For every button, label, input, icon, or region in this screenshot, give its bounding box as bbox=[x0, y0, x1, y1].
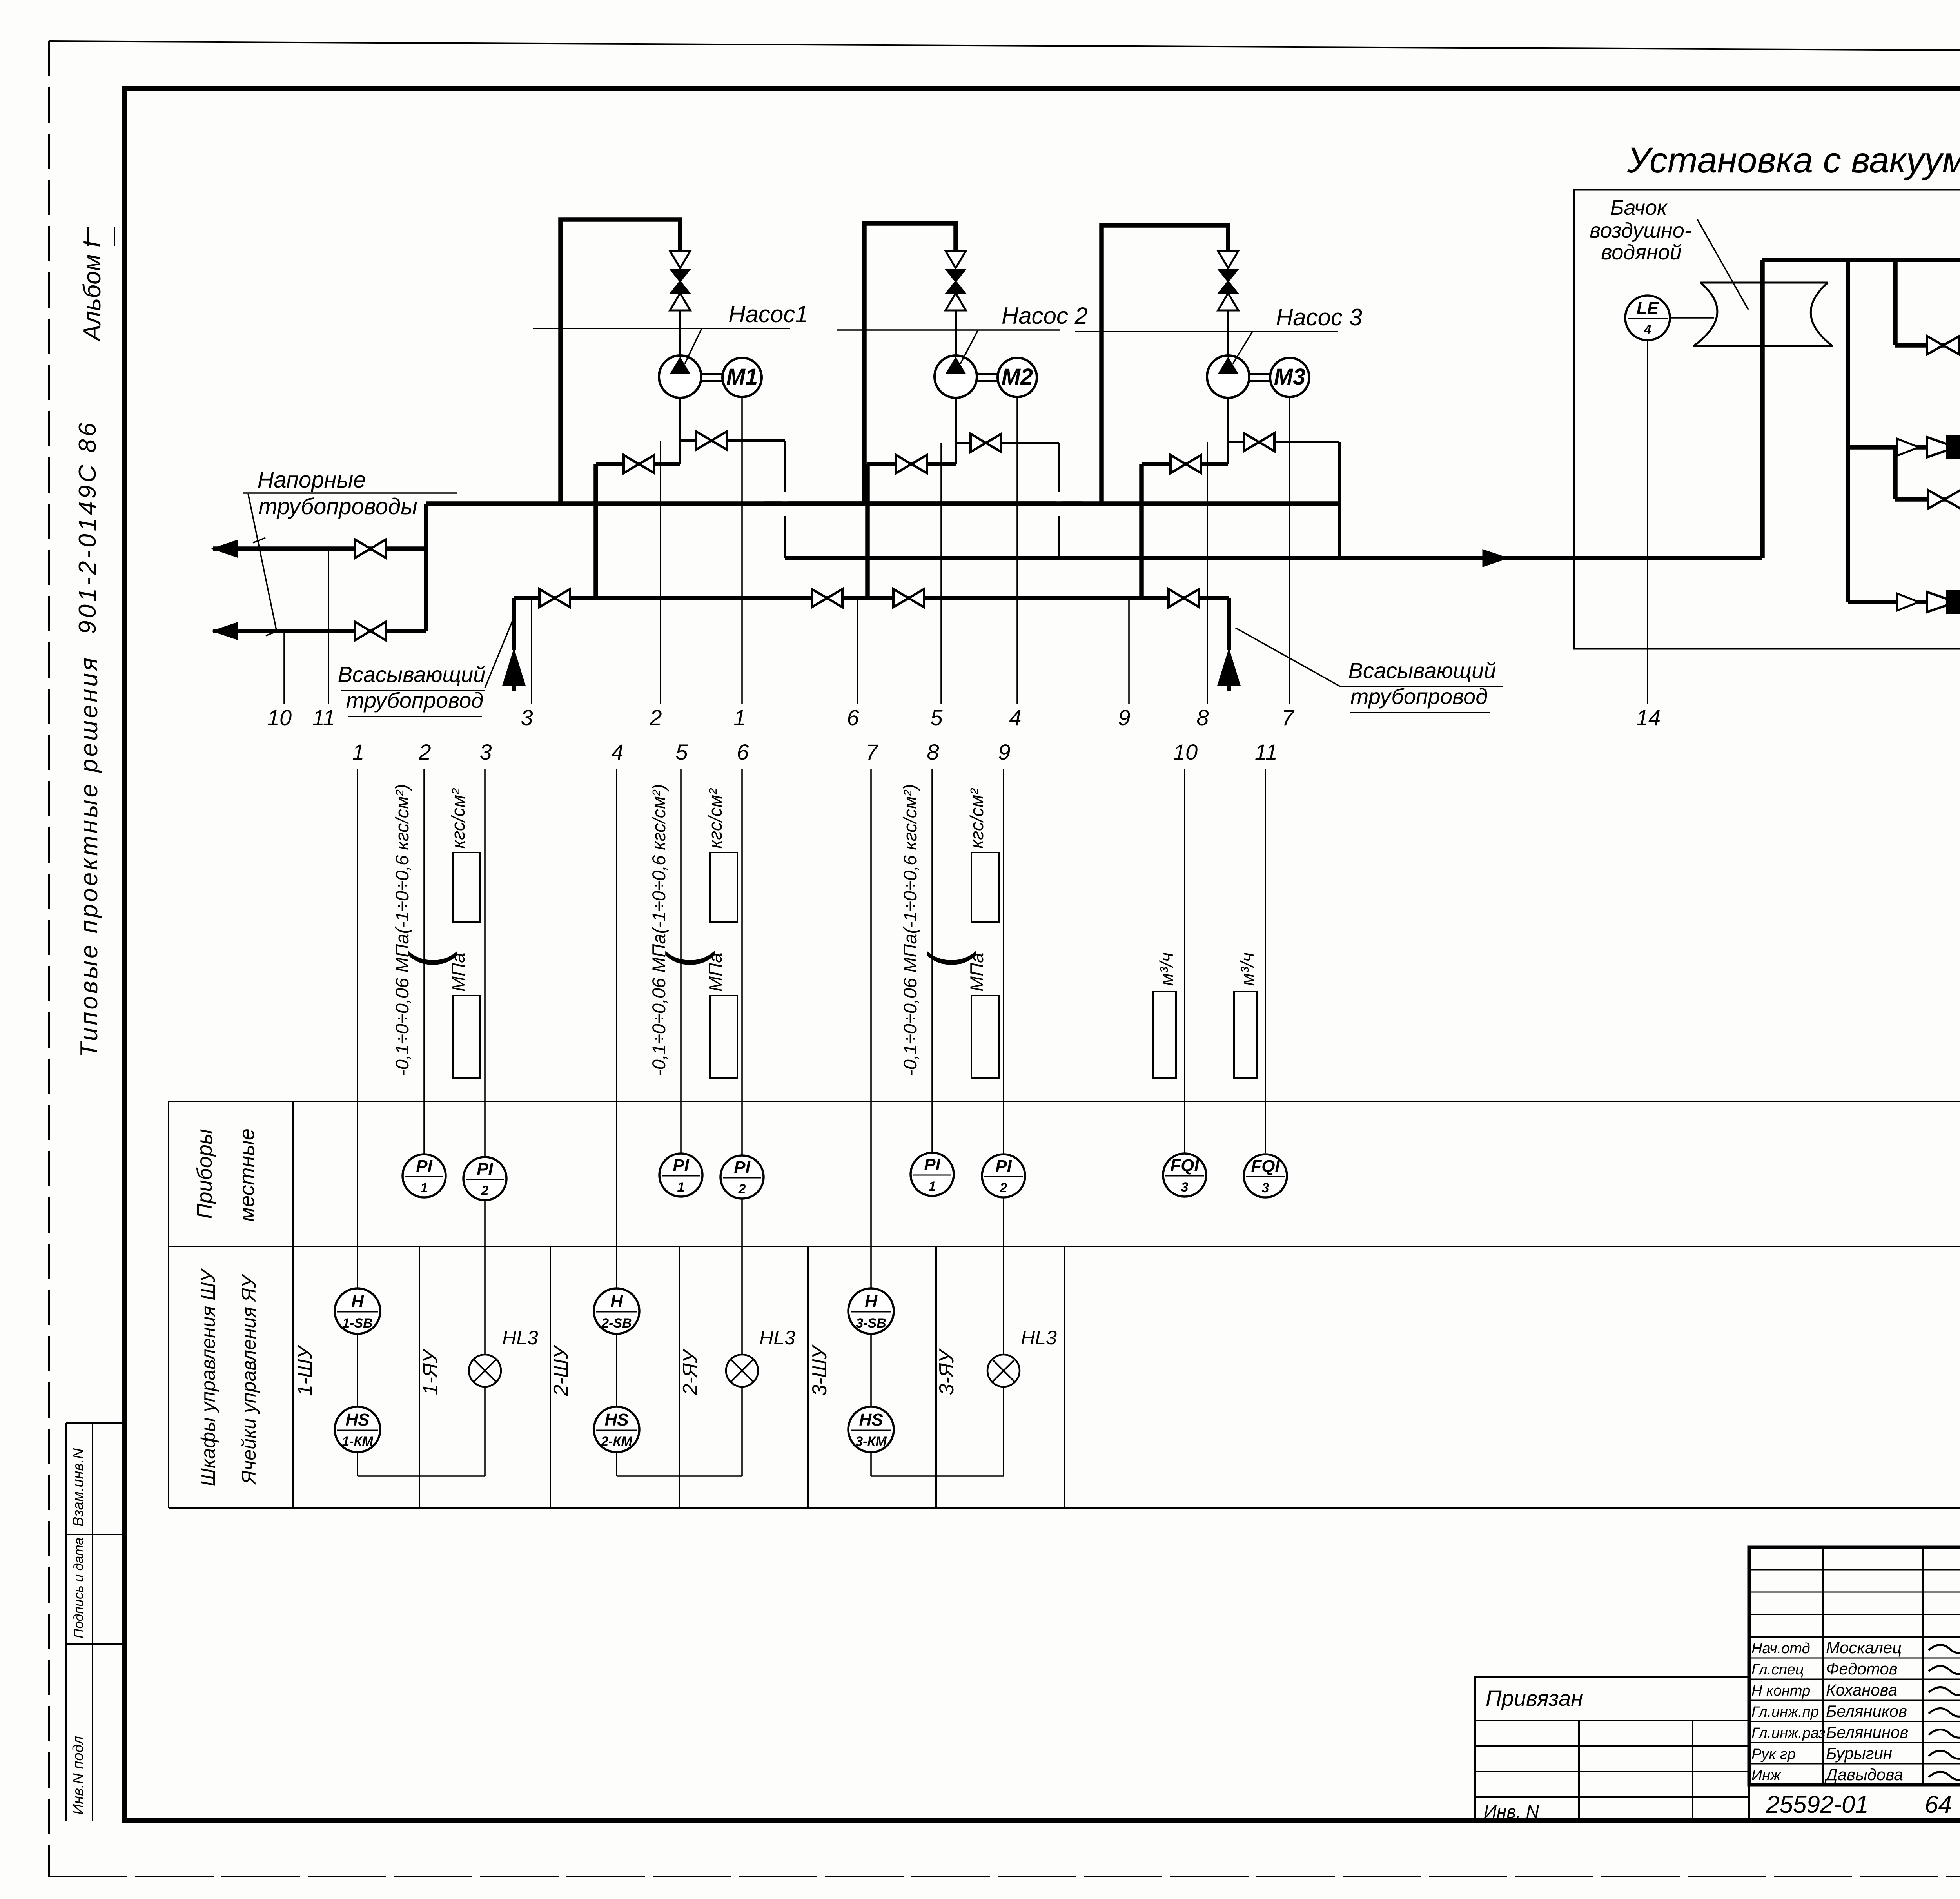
suction inlet pipe 1 with arrow bbox=[512, 598, 516, 650]
instrument tap line 9 bbox=[1128, 598, 1130, 704]
vacuum unit enclosure box bbox=[1574, 190, 1960, 649]
motor М3 bbox=[1270, 358, 1309, 397]
pump 3 suction pipe down bbox=[1227, 398, 1229, 442]
LE-4 signal line down (14) bbox=[1647, 340, 1648, 704]
pump 1 suction pipe down bbox=[679, 398, 681, 441]
svg-text:64: 64 bbox=[1925, 1791, 1952, 1818]
signal lamp HL3 bbox=[987, 1355, 1020, 1387]
box Привязан bbox=[1475, 1677, 1749, 1821]
svg-text:Всасывающий: Всасывающий bbox=[1348, 658, 1496, 683]
svg-text:PI: PI bbox=[924, 1155, 940, 1174]
svg-text:2-ЯУ: 2-ЯУ bbox=[679, 1348, 702, 1396]
pipe from tank top header (y=663) bbox=[1762, 258, 1960, 262]
pump 2 suction branch with valve bbox=[867, 462, 956, 466]
svg-text:Н контр: Н контр bbox=[1751, 1683, 1810, 1699]
svg-text:Москалец: Москалец bbox=[1826, 1638, 1902, 1657]
pump 1 priming line with valve bbox=[680, 439, 785, 442]
svg-text:Гл.инж.раз: Гл.инж.раз bbox=[1751, 1725, 1826, 1741]
instrument tap line 6 bbox=[857, 598, 858, 704]
svg-text:М3: М3 bbox=[1274, 364, 1306, 390]
svg-text:МПа: МПа bbox=[966, 953, 987, 992]
svg-text:Бурыгин: Бурыгин bbox=[1826, 1744, 1892, 1763]
svg-text:2-КМ: 2-КМ bbox=[601, 1434, 632, 1449]
svg-text:Белянинов: Белянинов bbox=[1826, 1723, 1908, 1741]
svg-text:Нач.отд: Нач.отд bbox=[1751, 1640, 1810, 1657]
svg-text:3: 3 bbox=[1262, 1181, 1269, 1195]
pump 2 suction pipe down bbox=[955, 398, 957, 443]
svg-text:Взам.инв.N: Взам.инв.N bbox=[70, 1448, 87, 1527]
svg-text:Давыдова: Давыдова bbox=[1824, 1765, 1903, 1784]
svg-text:трубопровод: трубопровод bbox=[346, 688, 483, 713]
svg-text:Беляников: Беляников bbox=[1826, 1702, 1907, 1720]
upper напорный trubоprovod (y=1400) bbox=[213, 546, 426, 551]
svg-text:10: 10 bbox=[1173, 740, 1198, 764]
svg-text:трубопровод: трубопровод bbox=[1350, 684, 1488, 709]
connector to lamp bbox=[358, 1475, 485, 1477]
svg-text:8: 8 bbox=[927, 740, 939, 764]
svg-text:HS: HS bbox=[604, 1410, 628, 1429]
svg-text:PI: PI bbox=[734, 1158, 750, 1177]
pump 1 discharge loop pipe bbox=[561, 219, 680, 504]
pipe through air-water tank bbox=[1760, 260, 1765, 283]
svg-text:Федотов: Федотов bbox=[1826, 1660, 1898, 1678]
svg-text:1: 1 bbox=[421, 1181, 428, 1195]
motor М2 signal line down bbox=[1016, 397, 1018, 704]
cabinet cell divider bbox=[807, 1246, 809, 1508]
pump 3 suction branch with valve bbox=[1142, 462, 1228, 466]
svg-text:М1: М1 bbox=[726, 364, 758, 390]
svg-text:Насос 2: Насос 2 bbox=[1002, 303, 1088, 329]
cabinet cell divider bbox=[550, 1246, 551, 1508]
svg-text:1-КМ: 1-КМ bbox=[342, 1434, 373, 1449]
motor М1 bbox=[722, 358, 762, 397]
lower напорный trubоprovod (y=1610) bbox=[213, 629, 426, 633]
svg-text:2: 2 bbox=[1000, 1181, 1007, 1195]
svg-text:Альбом I: Альбом I bbox=[79, 241, 106, 342]
svg-text:4: 4 bbox=[1009, 705, 1021, 730]
city discharge riser bbox=[424, 504, 428, 631]
svg-text:Инж: Инж bbox=[1751, 1767, 1781, 1784]
svg-text:14: 14 bbox=[1636, 705, 1661, 730]
svg-text:3-ШУ: 3-ШУ bbox=[808, 1344, 831, 1396]
svg-text:5: 5 bbox=[675, 740, 688, 764]
svg-text:5: 5 bbox=[930, 705, 943, 730]
svg-text:3: 3 bbox=[479, 740, 492, 764]
cabinet cell divider bbox=[935, 1246, 937, 1508]
svg-text:Установка с вакуум-насосами: Установка с вакуум-насосами bbox=[1627, 140, 1960, 180]
svg-text:HS: HS bbox=[859, 1410, 883, 1429]
label Насос 1 with leader bbox=[533, 328, 790, 329]
svg-text:кгс/см²: кгс/см² bbox=[966, 788, 987, 849]
svg-text:Насос 3: Насос 3 bbox=[1276, 304, 1362, 330]
svg-text:3-ЯУ: 3-ЯУ bbox=[935, 1348, 958, 1395]
suction manifold (y=1526) bbox=[514, 596, 1229, 600]
svg-text:9: 9 bbox=[1118, 705, 1130, 730]
switch HS/2-КМ bbox=[594, 1407, 639, 1452]
svg-text:2: 2 bbox=[649, 705, 662, 730]
pump 3 priming drop pipe bbox=[1338, 442, 1341, 558]
svg-text:Гл.инж.пр: Гл.инж.пр bbox=[1751, 1704, 1819, 1720]
svg-text:местные: местные bbox=[235, 1128, 259, 1222]
switch HS/3-КМ bbox=[848, 1407, 894, 1452]
svg-text:кгс/см²: кгс/см² bbox=[705, 788, 726, 849]
check valve & gate valve stack above pump 1 bbox=[670, 251, 690, 268]
svg-text:FQI: FQI bbox=[1251, 1157, 1280, 1176]
title block bbox=[1749, 1547, 1960, 1785]
svg-text:Насос1: Насос1 bbox=[728, 301, 808, 327]
svg-text:Инв. N: Инв. N bbox=[1484, 1801, 1539, 1822]
svg-text:Инв.N подл: Инв.N подл bbox=[70, 1736, 87, 1815]
svg-text:7: 7 bbox=[1281, 705, 1294, 730]
svg-text:11: 11 bbox=[1255, 740, 1278, 764]
switch HS/1-КМ bbox=[335, 1407, 380, 1452]
svg-text:Н: Н bbox=[865, 1292, 878, 1311]
push-button H/2-SB bbox=[594, 1288, 639, 1334]
pump 1 suction riser bbox=[593, 464, 598, 598]
check valve & gate valve stack above pump 2 bbox=[946, 251, 966, 268]
svg-text:2: 2 bbox=[481, 1183, 489, 1198]
svg-text:-0,1÷0÷0,06 МПа(-1÷0÷0,6 кгс/с: -0,1÷0÷0,06 МПа(-1÷0÷0,6 кгс/см²) bbox=[392, 784, 412, 1076]
vacuum pump 5 suction branch bbox=[1893, 447, 1898, 499]
push-button H/1-SB bbox=[335, 1288, 380, 1334]
svg-text:Напорные: Напорные bbox=[258, 467, 366, 493]
label Насос 2 with leader bbox=[837, 329, 1060, 331]
instrument tap line 3 bbox=[531, 598, 532, 704]
svg-text:1-ЯУ: 1-ЯУ bbox=[419, 1348, 442, 1395]
svg-text:3-SB: 3-SB bbox=[856, 1316, 886, 1331]
svg-text:Приборы: Приборы bbox=[193, 1129, 216, 1219]
motor М1 signal line down bbox=[741, 397, 743, 704]
svg-text:8: 8 bbox=[1196, 705, 1209, 730]
svg-text:10: 10 bbox=[267, 705, 292, 730]
air-water tank (бачок воздушно-водяной) bbox=[1700, 282, 1828, 284]
signal lamp HL3 bbox=[469, 1355, 501, 1387]
svg-text:водяной: водяной bbox=[1601, 241, 1682, 264]
tank outlet down to vacuum header bbox=[1760, 346, 1765, 558]
local gauges PI/FQI bbox=[403, 1154, 446, 1197]
connector to lamp bbox=[871, 1475, 1004, 1477]
valve on suction manifold bbox=[539, 589, 555, 607]
discharge manifold (y=1285) bbox=[426, 501, 1339, 506]
svg-text:LE: LE bbox=[1637, 299, 1659, 318]
svg-text:Н: Н bbox=[351, 1292, 364, 1311]
svg-text:FQI: FQI bbox=[1170, 1156, 1199, 1175]
check valve & gate valve stack above pump 3 bbox=[1218, 251, 1238, 268]
pump 2 priming drop pipe bbox=[1058, 443, 1060, 558]
cabinet cell divider bbox=[679, 1246, 680, 1508]
svg-text:PI: PI bbox=[995, 1157, 1012, 1176]
pump 2 priming line with valve bbox=[956, 442, 1059, 444]
pump Насос3 (П3) bbox=[1207, 355, 1249, 398]
svg-text:1: 1 bbox=[677, 1180, 685, 1195]
instrument tap line 10 bbox=[283, 631, 285, 704]
svg-text:Ячейки управления ЯУ: Ячейки управления ЯУ bbox=[238, 1273, 260, 1485]
vacuum unit suction riser bbox=[1846, 260, 1850, 602]
svg-text:1: 1 bbox=[929, 1179, 936, 1194]
svg-text:4: 4 bbox=[611, 740, 623, 764]
svg-text:МПа: МПа bbox=[705, 953, 726, 992]
sheet outer border bbox=[49, 41, 1960, 53]
svg-text:Н: Н bbox=[610, 1292, 623, 1311]
svg-text:Коханова: Коханова bbox=[1826, 1681, 1897, 1699]
svg-text:HL3: HL3 bbox=[759, 1327, 795, 1349]
svg-text:11: 11 bbox=[312, 705, 335, 730]
pump Насос2 (П2) bbox=[935, 355, 977, 398]
svg-text:3: 3 bbox=[1181, 1180, 1189, 1195]
svg-text:25592-01: 25592-01 bbox=[1766, 1791, 1869, 1818]
pump 2 suction riser bbox=[865, 464, 870, 598]
pump 3 discharge loop pipe bbox=[1102, 225, 1228, 504]
svg-text:-0,1÷0÷0,06 МПа(-1÷0÷0,6 кгс/с: -0,1÷0÷0,06 МПа(-1÷0÷0,6 кгс/см²) bbox=[900, 784, 920, 1076]
svg-text:7: 7 bbox=[866, 740, 878, 764]
instrument tap line 5 bbox=[940, 443, 942, 704]
svg-text:HL3: HL3 bbox=[502, 1327, 538, 1349]
crossing gaps of priming drops over manifold bbox=[782, 492, 788, 516]
table frame bbox=[169, 1101, 1960, 1102]
connector to lamp bbox=[617, 1475, 742, 1477]
svg-text:PI: PI bbox=[477, 1159, 493, 1179]
level instrument LE-4 bbox=[1625, 296, 1670, 340]
svg-text:6: 6 bbox=[847, 705, 859, 730]
push-button H/3-SB bbox=[848, 1288, 894, 1334]
left stamp column bbox=[65, 1423, 67, 1821]
valve on suction manifold bbox=[1169, 589, 1184, 607]
svg-text:М2: М2 bbox=[1002, 364, 1033, 390]
vacuum pump 4 suction branch bbox=[1893, 260, 1898, 345]
svg-text:-0,1÷0÷0,06 МПа(-1÷0÷0,6 кгс/с: -0,1÷0÷0,06 МПа(-1÷0÷0,6 кгс/см²) bbox=[648, 784, 669, 1076]
vacuum header to air-water tank (y=1424) bbox=[785, 556, 1762, 560]
svg-text:PI: PI bbox=[416, 1157, 432, 1176]
pump 3 priming line with valve bbox=[1228, 441, 1339, 443]
svg-text:1-ШУ: 1-ШУ bbox=[294, 1344, 316, 1396]
svg-text:2: 2 bbox=[418, 740, 431, 764]
svg-text:2: 2 bbox=[738, 1182, 746, 1197]
motor М3 signal line down bbox=[1289, 397, 1290, 704]
suction inlet pipe 2 with arrow bbox=[1227, 598, 1231, 650]
pump 1 priming drop pipe bbox=[784, 441, 786, 558]
svg-text:2-ШУ: 2-ШУ bbox=[550, 1344, 572, 1397]
svg-text:Бачок: Бачок bbox=[1610, 196, 1668, 219]
label Насос 3 with leader bbox=[1075, 331, 1338, 332]
svg-text:трубопроводы: трубопроводы bbox=[258, 494, 417, 519]
svg-text:м³/ч: м³/ч bbox=[1156, 952, 1177, 986]
svg-text:2-SB: 2-SB bbox=[601, 1316, 632, 1331]
svg-text:кгс/см²: кгс/см² bbox=[448, 788, 468, 849]
svg-text:9: 9 bbox=[998, 740, 1010, 764]
pump 3 suction riser bbox=[1139, 464, 1144, 598]
instrument tap line 2 bbox=[660, 441, 661, 704]
pump Насос1 (П1) bbox=[659, 355, 701, 398]
svg-text:HL3: HL3 bbox=[1021, 1327, 1057, 1349]
cabinet cell divider bbox=[1064, 1246, 1065, 1508]
svg-text:м³/ч: м³/ч bbox=[1237, 952, 1258, 986]
svg-text:воздушно-: воздушно- bbox=[1590, 219, 1691, 242]
svg-text:МПа: МПа bbox=[448, 953, 468, 992]
instrument tap line 8 bbox=[1207, 442, 1208, 704]
signal lamp HL3 bbox=[726, 1355, 758, 1387]
svg-text:HS: HS bbox=[345, 1410, 369, 1429]
svg-text:3-КМ: 3-КМ bbox=[855, 1434, 887, 1449]
motor М2 bbox=[998, 358, 1037, 397]
instrument tap line 11 bbox=[328, 549, 329, 704]
svg-text:PI: PI bbox=[673, 1156, 689, 1175]
vacuum pumps lower discharge header (y=1536) bbox=[1848, 600, 1960, 604]
svg-text:6: 6 bbox=[737, 740, 749, 764]
svg-text:Привязан: Привязан bbox=[1486, 1686, 1583, 1710]
valve on suction manifold bbox=[812, 589, 827, 607]
valve on suction manifold bbox=[893, 589, 909, 607]
svg-text:Шкафы управления ШУ: Шкафы управления ШУ bbox=[197, 1268, 219, 1486]
svg-text:4: 4 bbox=[1644, 323, 1651, 337]
valve on lower discharge pipe bbox=[355, 622, 370, 640]
svg-text:Типовые проектные решения: Типовые проектные решения bbox=[76, 655, 103, 1057]
svg-text:1: 1 bbox=[733, 705, 746, 730]
svg-text:1: 1 bbox=[352, 740, 364, 764]
svg-text:1-SB: 1-SB bbox=[342, 1316, 372, 1331]
svg-text:901-2-0149С 86: 901-2-0149С 86 bbox=[74, 420, 101, 634]
vacuum pumps upper discharge header (y=1141) bbox=[1848, 445, 1960, 450]
pump 2 discharge loop pipe bbox=[864, 223, 956, 504]
svg-text:Гл.спец: Гл.спец bbox=[1751, 1661, 1804, 1678]
svg-text:Подпись и дата: Подпись и дата bbox=[71, 1538, 86, 1638]
pump 1 suction branch with valve bbox=[596, 462, 680, 466]
cabinet cell divider bbox=[419, 1246, 420, 1508]
valve on upper discharge pipe bbox=[355, 539, 370, 558]
svg-text:Рук гр: Рук гр bbox=[1751, 1746, 1796, 1763]
svg-text:Всасывающий: Всасывающий bbox=[338, 662, 486, 687]
svg-text:3: 3 bbox=[521, 705, 533, 730]
